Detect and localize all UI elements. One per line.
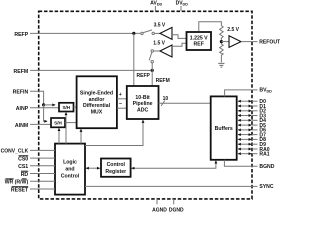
wire REF output to divider	[199, 22, 222, 31]
wire control register to buffers	[132, 161, 216, 169]
svg-text:+: +	[119, 92, 122, 98]
switch S1 contact right	[152, 32, 154, 34]
wire AINM entry	[30, 123, 51, 125]
svg-text:and/or: and/or	[89, 97, 105, 103]
wire REFM vertical to ADC	[151, 70, 153, 86]
sample-hold S/H 1 box	[59, 103, 74, 112]
wire RESET entry	[30, 188, 55, 190]
svg-text:10-Bit: 10-Bit	[135, 95, 150, 101]
switch S2 contact top	[151, 50, 153, 52]
wire AGND pin tick	[156, 199, 158, 204]
svg-text:BGND: BGND	[259, 164, 274, 170]
wire RD entry	[30, 173, 55, 175]
wire BVDD to Buffers top	[225, 90, 258, 97]
data bus D0 line	[238, 100, 251, 102]
node divider midpoint dot	[220, 40, 223, 43]
svg-text:AGND: AGND	[152, 207, 167, 213]
wire S/H 2 to MUX	[65, 122, 77, 124]
svg-text:Control: Control	[61, 173, 80, 179]
amplifier 3.5V buffer triangle	[160, 27, 172, 39]
svg-text:Register: Register	[105, 169, 126, 175]
multiplexer MUX box	[77, 76, 117, 128]
wire SYNC	[85, 185, 258, 187]
svg-text:2.5 V: 2.5 V	[227, 27, 239, 33]
wire REFIN entry	[30, 91, 44, 105]
bus slash mark	[161, 101, 165, 106]
switch S2 contact bottom	[151, 61, 153, 63]
switch S1 contact left	[141, 32, 143, 34]
svg-text:AINM: AINM	[15, 123, 28, 129]
svg-text:S/H: S/H	[62, 105, 70, 110]
svg-text:Single-Ended: Single-Ended	[80, 91, 113, 97]
wire S/H 1 to MUX	[74, 106, 77, 108]
node REFP junction dot	[132, 32, 135, 35]
wire logic to ADC clock	[85, 120, 143, 146]
wire REFIN branch down to S/H 2	[44, 105, 48, 121]
wire ADC output bus to Buffers	[159, 102, 211, 104]
amplifier 2.5V buffer triangle	[229, 36, 241, 48]
svg-text:REFIN: REFIN	[13, 90, 29, 96]
svg-text:RA1: RA1	[259, 152, 269, 158]
svg-text:BVDD: BVDD	[259, 88, 272, 94]
svg-text:SYNC: SYNC	[259, 184, 273, 190]
wire REFM net horizontal	[30, 69, 152, 71]
reference U1 1.225V REF box	[187, 32, 212, 50]
wire REFP net horizontal	[30, 32, 141, 34]
wire switch S2 to amp output	[153, 50, 160, 52]
wire logic to S/H 1 clock	[65, 112, 67, 143]
svg-text:S/H: S/H	[54, 121, 62, 126]
wire MUX to ADC minus	[117, 107, 127, 109]
wire CONV_CLK entry	[30, 149, 55, 151]
svg-text:WR (R/W): WR (R/W)	[5, 180, 29, 186]
wire CS0 entry	[30, 157, 55, 159]
wire DVDD pin tick	[180, 6, 182, 11]
svg-text:and: and	[65, 167, 74, 173]
wire logic to S/H 2 clock	[58, 128, 60, 144]
svg-text:ADC: ADC	[137, 107, 148, 113]
ground symbol	[218, 63, 224, 67]
wire AVDD pin tick	[154, 6, 156, 11]
wire switch S1 to amp output	[154, 32, 160, 34]
data bus D1 line	[238, 105, 251, 107]
svg-text:REFP: REFP	[137, 73, 151, 79]
data bus D7 line	[238, 134, 251, 136]
svg-text:3.5 V: 3.5 V	[154, 22, 166, 28]
svg-text:−: −	[119, 102, 122, 108]
svg-text:RD: RD	[21, 172, 29, 178]
svg-text:Buffers: Buffers	[215, 126, 233, 132]
svg-text:10: 10	[163, 96, 169, 102]
wire logic to control register bidirectional	[86, 167, 100, 169]
data bus D6 line	[238, 129, 251, 131]
wire logic to MUX clock	[80, 129, 82, 144]
svg-text:CONV_CLK: CONV_CLK	[1, 149, 29, 155]
wire MUX to ADC plus	[117, 98, 127, 100]
wire CS1 entry	[30, 165, 55, 167]
svg-text:REFOUT: REFOUT	[259, 40, 280, 46]
svg-text:Differential: Differential	[83, 103, 111, 109]
control register box	[101, 159, 131, 177]
data bus RA0 line	[238, 148, 251, 150]
logic and control box	[55, 144, 85, 195]
svg-text:Control: Control	[107, 162, 126, 168]
wire REFOUT	[241, 41, 258, 43]
svg-text:DVDD: DVDD	[176, 0, 189, 6]
data bus RA1 line	[238, 153, 251, 155]
node REFM junction dot	[151, 69, 154, 72]
svg-text:CS0: CS0	[18, 157, 28, 163]
adc 10-Bit Pipeline ADC box	[127, 86, 159, 119]
chip boundary dashed border	[39, 11, 252, 199]
svg-text:REFM: REFM	[156, 78, 170, 84]
wire REFIN to S/H 1	[44, 104, 56, 106]
pin ticks right data pins	[252, 101, 258, 154]
wire REFP vertical to ADC	[133, 33, 135, 86]
svg-text:REFP: REFP	[14, 32, 28, 38]
svg-text:Logic: Logic	[63, 160, 77, 166]
wire AINP entry	[30, 107, 59, 109]
data bus D3 line	[238, 115, 251, 117]
data bus D8 line	[238, 138, 251, 140]
node REFIN branch dot	[42, 103, 45, 106]
wire WR entry	[30, 180, 55, 182]
svg-text:AVDD: AVDD	[150, 0, 162, 6]
svg-text:RESET: RESET	[11, 187, 29, 193]
amplifier 1.5V buffer triangle	[160, 45, 172, 57]
wire divider to 2.5V amp	[221, 41, 229, 43]
svg-text:REF: REF	[194, 42, 204, 48]
svg-text:CS1: CS1	[18, 164, 28, 170]
buffers box	[211, 96, 237, 159]
wire DGND pin tick	[173, 199, 175, 204]
svg-text:REFM: REFM	[13, 69, 28, 75]
wire BGND from Buffers bottom	[224, 160, 257, 167]
data bus D4 line	[238, 119, 251, 121]
switch S1 arm	[143, 30, 152, 33]
resistor R2	[220, 43, 224, 62]
data bus D5 line	[238, 124, 251, 126]
svg-text:1.5 V: 1.5 V	[153, 41, 165, 47]
svg-text:AINP: AINP	[16, 106, 29, 112]
data bus D2 line	[238, 110, 251, 112]
svg-text:DGND: DGND	[169, 207, 184, 213]
wire amp 3.5V input from REF	[172, 35, 187, 39]
switch S2 arm	[149, 52, 152, 60]
svg-text:Pipeline: Pipeline	[133, 101, 153, 107]
resistor R1	[220, 26, 224, 41]
svg-text:MUX: MUX	[91, 109, 103, 115]
data bus D9 line	[238, 143, 251, 145]
wire amp 1.5V input from REF	[172, 43, 187, 46]
sample-hold S/H 2 box	[51, 118, 65, 127]
wire REFM vertical to switch S2	[151, 63, 153, 70]
